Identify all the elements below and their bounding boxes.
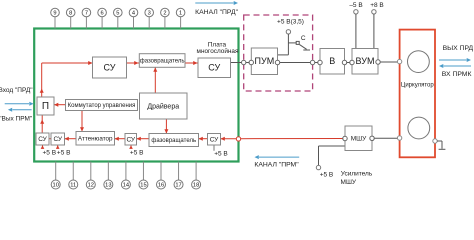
pin 11 (bottom connector)	[69, 162, 78, 189]
svg-text:+5 В: +5 В	[320, 172, 334, 179]
module outline (green board boundary)	[34, 29, 238, 162]
supply +5 В to СУ 4	[214, 145, 228, 158]
pin 5 (top connector)	[114, 8, 123, 28]
supply +5 В to СУ 1	[41, 145, 56, 157]
svg-text:фазовращатель: фазовращатель	[151, 138, 196, 144]
svg-text:Циркулятор: Циркулятор	[401, 83, 434, 89]
svg-text:В: В	[329, 56, 335, 66]
phase shifter фазовращатель (top)	[139, 54, 185, 68]
svg-text:СУ: СУ	[38, 136, 47, 143]
pin 16 (bottom connector)	[157, 162, 166, 189]
supply +5 В to СУ 2	[56, 145, 71, 157]
pin 17 (bottom connector)	[174, 162, 183, 189]
drivers Драйвера	[140, 93, 188, 119]
wire В to ВУМ	[342, 60, 354, 64]
phase shifter фазовращатель (bottom)	[149, 134, 199, 147]
wire СУ to фазовращатель (top, red)	[127, 61, 140, 65]
svg-text:+8 В: +8 В	[370, 2, 384, 9]
pin 8 (top connector)	[66, 8, 75, 28]
amplifier СУ (bottom 2)	[51, 133, 65, 145]
svg-text:9: 9	[53, 11, 56, 17]
circulator junction 2 (bottom circle)	[408, 117, 430, 139]
wire Драйвера to фазовращатель bottom (red)	[164, 119, 168, 134]
pin 4 (top connector)	[129, 8, 138, 28]
svg-text:Усилитель: Усилитель	[341, 171, 373, 178]
control commutator Коммутатор управления	[66, 100, 138, 111]
label Плата многослойная	[197, 42, 239, 55]
svg-text:Аттенюатор: Аттенюатор	[78, 135, 113, 142]
svg-text:СУ: СУ	[210, 136, 219, 143]
supply +5 В to МШУ	[316, 146, 345, 179]
svg-text:18: 18	[193, 183, 199, 189]
wire МШУ to circulator	[343, 136, 402, 141]
svg-text:ВХ ПРМК: ВХ ПРМК	[442, 71, 472, 78]
switch С	[288, 35, 310, 50]
svg-text:14: 14	[123, 183, 129, 189]
wire МШУ to board edge (receive, red)	[236, 137, 345, 141]
svg-text:16: 16	[158, 183, 164, 189]
svg-text:–5 В: –5 В	[349, 2, 362, 9]
svg-text:1: 1	[179, 11, 182, 17]
svg-text:5: 5	[116, 11, 119, 17]
wire фазовращатель to СУ (receive, red)	[137, 137, 150, 141]
pin 1 (top connector)	[176, 8, 185, 28]
svg-text:Коммутатор управления: Коммутатор управления	[68, 103, 136, 109]
wire СУ to ПУМ crossing board edge	[231, 60, 254, 64]
svg-text:С: С	[301, 35, 306, 42]
pin 2 (top connector)	[161, 8, 170, 28]
svg-text:многослойная: многослойная	[197, 47, 239, 55]
svg-text:КАНАЛ "ПРД": КАНАЛ "ПРД"	[195, 9, 238, 16]
wire ПУМ to В	[275, 60, 322, 64]
wire ВУМ to circulator	[376, 59, 402, 64]
svg-text:Вход "ПРД": Вход "ПРД"	[0, 87, 33, 94]
svg-text:8: 8	[69, 11, 72, 17]
svg-text:СУ: СУ	[126, 136, 135, 143]
svg-text:6: 6	[101, 11, 104, 17]
svg-text:17: 17	[175, 183, 181, 189]
wire +5В(3,5) to ПУМ	[278, 34, 289, 55]
circulator junction 1 (top circle)	[408, 51, 430, 73]
svg-text:+5 В: +5 В	[57, 150, 71, 157]
wire СУ to фазовращатель (receive, red)	[199, 137, 208, 141]
supply -5 В terminal	[349, 2, 362, 48]
wire СУ up to П (receive, red)	[40, 115, 44, 133]
svg-text:ПУМ: ПУМ	[255, 56, 275, 66]
svg-text:СУ: СУ	[208, 63, 220, 73]
amplifier СУ (bottom 4)	[208, 134, 221, 146]
supply +5 В to СУ 3	[129, 145, 143, 157]
node МШУ pins	[343, 136, 374, 141]
pin 13 (bottom connector)	[104, 162, 113, 189]
circulator terminated port to ground	[433, 139, 446, 150]
output power amplifier ВУМ	[352, 49, 378, 75]
pin 14 (bottom connector)	[121, 162, 130, 189]
svg-text:10: 10	[53, 183, 59, 189]
amplifier СУ (bottom 3)	[125, 134, 137, 146]
wire СУ to СУ (receive, red)	[49, 138, 51, 140]
pre power amplifier ПУМ	[251, 48, 277, 75]
pin 18 (bottom connector)	[192, 162, 201, 189]
pin 10 (bottom connector)	[51, 162, 60, 189]
svg-text:11: 11	[70, 183, 76, 189]
svg-text:12: 12	[88, 183, 94, 189]
svg-text:13: 13	[105, 183, 111, 189]
wire Аттенюатор to СУ (receive, red)	[65, 137, 77, 141]
svg-text:Драйвера: Драйвера	[147, 102, 179, 110]
svg-text:СУ: СУ	[104, 62, 116, 72]
amplifier СУ (top left)	[93, 57, 127, 78]
net КАНАЛ ПРД (transmit channel)	[195, 1, 238, 16]
node ПУМ input/output pins	[249, 60, 280, 64]
svg-text:П: П	[42, 101, 49, 112]
pin 15 (bottom connector)	[139, 162, 148, 189]
port ВЫХ ПРД	[439, 45, 474, 62]
pin 9 (top connector)	[51, 8, 60, 28]
pin 7 (top connector)	[82, 8, 91, 28]
svg-text:"Вых ПРМ": "Вых ПРМ"	[0, 115, 33, 122]
net КАНАЛ ПРМ (receive channel)	[254, 155, 299, 168]
amplifier СУ (bottom 1)	[36, 133, 49, 145]
node ВУМ pins	[350, 60, 380, 65]
svg-text:+5 В: +5 В	[130, 150, 144, 157]
attenuator Аттенюатор	[76, 132, 115, 146]
wire Коммутатор to Аттенюатор (red)	[80, 111, 84, 132]
wire Драйвера to фазовращатель top (red)	[153, 67, 157, 93]
pin 6 (top connector)	[98, 8, 107, 28]
supply +5 В(3,5) terminal	[277, 19, 304, 34]
svg-text:СУ: СУ	[53, 136, 62, 143]
svg-text:3: 3	[148, 11, 151, 17]
circulator housing (red box)	[400, 30, 435, 158]
svg-text:+5 В: +5 В	[214, 151, 228, 158]
svg-text:КАНАЛ "ПРМ": КАНАЛ "ПРМ"	[254, 161, 299, 168]
svg-text:ВУМ: ВУМ	[356, 56, 375, 66]
amplifier СУ (top right)	[198, 58, 231, 78]
svg-text:+5 В: +5 В	[43, 150, 57, 157]
supply +8 В terminal	[370, 2, 384, 48]
svg-text:МШУ: МШУ	[341, 179, 357, 186]
port Вых ПРМ	[0, 108, 33, 123]
svg-text:15: 15	[140, 183, 146, 189]
node В pins	[318, 60, 347, 64]
wire фазовращатель to СУ (top right, red)	[185, 61, 198, 65]
low noise amplifier МШУ	[345, 126, 372, 151]
port Вход ПРД	[0, 87, 34, 105]
dashed sub-module boundary (PUM block)	[244, 15, 313, 91]
svg-text:+5 В(3,5): +5 В(3,5)	[277, 19, 304, 26]
pin 3 (top connector)	[145, 8, 154, 28]
wire П to СУ (transmit, red)	[40, 61, 93, 97]
svg-text:фазовращатель: фазовращатель	[140, 59, 185, 65]
svg-text:4: 4	[132, 11, 135, 17]
svg-text:7: 7	[85, 11, 88, 17]
svg-text:МШУ: МШУ	[351, 135, 367, 142]
label Усилитель МШУ	[341, 171, 373, 187]
wire СУ to Аттенюатор (receive, red)	[115, 137, 126, 141]
amplifier В	[320, 49, 345, 75]
svg-text:2: 2	[163, 11, 166, 17]
wire board edge node to СУ (receive, red)	[221, 137, 239, 141]
svg-text:ВЫХ ПРД: ВЫХ ПРД	[443, 45, 474, 52]
port ВХ ПРМК	[439, 64, 471, 78]
pin 12 (bottom connector)	[86, 162, 95, 189]
wire Коммутатор to П (red)	[54, 103, 66, 107]
divider П (switch)	[37, 97, 54, 115]
